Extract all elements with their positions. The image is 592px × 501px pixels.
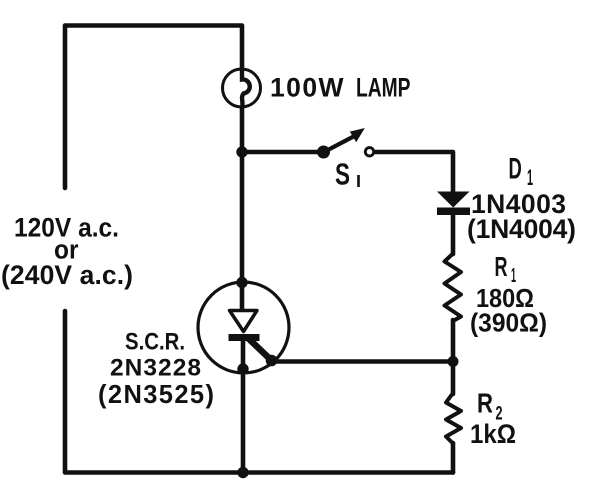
SCR cathode bar bbox=[229, 334, 260, 341]
wire left+top (source top loop) bbox=[65, 26, 242, 189]
node SCR cathode junction bbox=[237, 363, 248, 374]
svg-text:R: R bbox=[495, 251, 508, 282]
node gate junction bbox=[266, 355, 278, 367]
svg-text:S.C.R.: S.C.R. bbox=[125, 328, 185, 355]
node dots bbox=[236, 146, 458, 478]
svg-text:2N3228: 2N3228 bbox=[110, 354, 201, 381]
resistor R2 zigzag bbox=[446, 393, 461, 444]
node R1/R2 junction bbox=[448, 356, 459, 367]
svg-text:1kΩ: 1kΩ bbox=[470, 419, 516, 449]
svg-text:100W: 100W bbox=[270, 73, 344, 103]
SCR anode triangle bbox=[230, 311, 258, 332]
svg-text:(2N3525): (2N3525) bbox=[98, 381, 214, 409]
node bottom rail junction bbox=[237, 467, 248, 478]
svg-text:LAMP: LAMP bbox=[356, 73, 411, 103]
resistor R1 zigzag bbox=[445, 254, 462, 322]
wire lamp junction to switch pole bbox=[242, 150, 320, 155]
svg-text:(390Ω): (390Ω) bbox=[470, 308, 547, 338]
node lamp/switch junction bbox=[236, 146, 247, 157]
svg-text:D: D bbox=[509, 153, 522, 186]
SCR body circle bbox=[198, 282, 289, 373]
wire R1 to R2 through gate node bbox=[451, 320, 456, 394]
svg-text:S: S bbox=[335, 157, 350, 192]
lamp 100W bulb symbol bbox=[223, 69, 261, 107]
switch S1 bbox=[317, 128, 374, 159]
svg-text:(1N4004): (1N4004) bbox=[467, 214, 576, 244]
wire R2 to bottom rail bbox=[451, 443, 456, 473]
svg-text:R: R bbox=[477, 387, 493, 418]
svg-text:(240V a.c.): (240V a.c.) bbox=[1, 260, 133, 290]
wire diode cathode to R1 bbox=[451, 214, 456, 254]
diode D1 symbol bbox=[437, 192, 470, 216]
svg-text:1: 1 bbox=[527, 165, 533, 190]
wire switch throw to diode anode bbox=[376, 152, 454, 192]
wire SCR cathode to bottom rail bbox=[241, 340, 246, 473]
node SCR anode junction bbox=[236, 277, 247, 288]
wire left bottom + bottom rail bbox=[65, 311, 453, 473]
SCR gate lead bbox=[249, 339, 272, 361]
wire lamp to SCR anode bbox=[240, 106, 245, 311]
wire gate horizontal bbox=[272, 359, 453, 364]
